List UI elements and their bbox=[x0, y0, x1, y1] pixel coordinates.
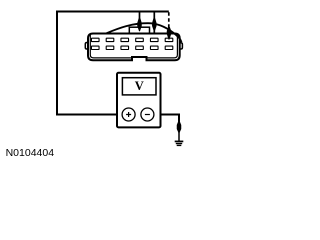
svg-text:N0104404: N0104404 bbox=[6, 147, 55, 159]
svg-text:V: V bbox=[135, 79, 144, 93]
